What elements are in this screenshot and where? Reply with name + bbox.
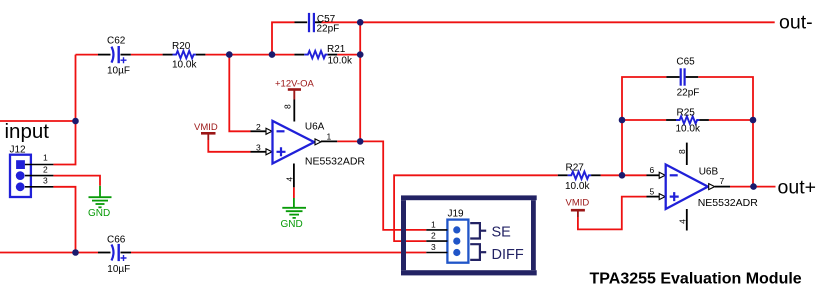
svg-text:3: 3 [43,175,48,185]
op-amp U6B [647,143,759,231]
svg-text:7: 7 [720,176,725,186]
svg-text:U6A: U6A [305,122,325,133]
ground (J12 pin2) [88,186,112,219]
node input junction [72,118,79,125]
svg-text:10.0k: 10.0k [172,60,197,71]
svg-text:C62: C62 [107,36,126,47]
SE jumper bracket [470,223,486,238]
wire feedback riser x=360 [359,22,361,141]
connector J12 [10,144,54,197]
resistor R25 [666,108,709,135]
capacitor C65 [666,57,699,99]
capacitor C66 [98,235,131,276]
pin 3 lead U6A [251,151,267,153]
pin 7 output U6B [709,184,715,190]
resistor R27 [558,163,601,193]
connector J19 [426,208,468,262]
node R20 / U6A pin2 junction [226,51,233,58]
svg-text:DIFF: DIFF [492,247,524,263]
wire C62 to R20 [131,54,163,56]
wire R27 left run to J19 pin2 [394,175,558,241]
node C57 right top junction [357,19,364,26]
wire U6B output to out+ [730,186,776,188]
svg-text:R25: R25 [677,108,696,119]
node R25 right junction [750,117,757,124]
svg-text:3: 3 [431,242,436,252]
svg-text:1: 1 [43,153,48,163]
wire VMID to U6B pin5 [578,197,647,230]
pin 1 pad J19 [453,226,460,233]
svg-text:TPA3255 Evaluation Module: TPA3255 Evaluation Module [590,271,802,288]
svg-text:R21: R21 [327,44,346,55]
node bottom run / J12 pin3 junction [72,249,79,256]
svg-text:out+: out+ [778,177,817,199]
pin 1 lead J19 [426,229,447,231]
pin 2 pad J12 [16,171,25,180]
wire out- feedback left riser x=272 [272,22,295,54]
wire U6A output to J19 pin1 [337,141,426,230]
node R27 / U6B pin6 junction [619,172,626,179]
svg-text:2: 2 [431,231,436,241]
resistor R21 [294,44,353,67]
pin 8 stub U6B [686,143,688,165]
svg-text:1: 1 [327,132,332,142]
svg-text:J19: J19 [448,208,465,219]
wire J12 pin3 down to bottom run [53,187,75,253]
wire J12 pin2 to GND [53,176,100,186]
node R21 right junction [357,51,364,58]
pin 2 lead J19 [426,240,447,242]
svg-text:10µF: 10µF [107,264,130,275]
svg-text:10.0k: 10.0k [676,124,701,135]
pin 2 lead U6A [251,130,267,132]
DIFF jumper bracket [470,244,486,260]
node U6A output junction [357,138,364,145]
pin 1 square pad J12 [16,160,25,169]
pin 6 lead U6B [647,174,660,176]
svg-text:C66: C66 [107,235,126,246]
svg-text:R27: R27 [566,163,585,174]
svg-text:5: 5 [650,186,655,196]
wire U6A pin4 to GND [293,187,295,198]
svg-text:VMID: VMID [566,198,590,209]
capacitor C57 [295,13,340,35]
node C57 loop left junction [269,51,276,58]
op-amp U6A [251,100,366,188]
pin 5 lead U6B [647,196,660,198]
selector outline box around J19 [401,195,537,275]
pin 3 lead J12 [25,186,54,188]
svg-text:8: 8 [677,149,687,154]
resistor R20 [163,41,206,71]
svg-text:6: 6 [650,165,655,175]
pin 2 pad J19 [453,238,460,245]
supply VMID (U6B) [566,198,590,218]
svg-text:22pF: 22pF [317,24,340,35]
svg-text:R20: R20 [172,41,191,52]
svg-text:+12V-OA: +12V-OA [275,79,314,90]
svg-text:10.0k: 10.0k [328,56,353,67]
svg-text:input: input [5,120,50,143]
wire node to C62 left [76,54,99,56]
svg-text:2: 2 [43,164,48,174]
wire input net from left edge [0,120,76,122]
wire R25 right segment [709,119,753,121]
wire bottom run left of C66 [0,252,98,254]
pin 2 lead J12 [25,175,54,177]
wire R25 left segment [622,119,666,121]
pin 4 stub U6A [293,164,295,188]
supply +12V-OA [275,79,314,100]
svg-text:SE: SE [492,225,512,241]
pin 8 stub U6A [293,100,295,122]
wire R20 to R21 [205,54,294,56]
svg-text:C65: C65 [676,57,695,68]
svg-text:8: 8 [283,104,293,109]
pin 4 stub U6B [686,209,688,231]
wire U6B feedback left riser to C65 [622,77,666,175]
svg-text:10.0k: 10.0k [565,181,590,192]
wire C65 right and feedback right riser [698,77,753,187]
pin 1 output U6A [315,139,321,145]
svg-text:2: 2 [256,122,261,132]
svg-text:NE5532ADR: NE5532ADR [698,197,759,209]
svg-text:3: 3 [256,142,261,152]
svg-text:out-: out- [779,12,813,34]
pin 3 pad J12 [16,182,25,191]
node R25 left junction [619,117,626,124]
svg-text:22pF: 22pF [677,87,700,98]
wire VMID to U6A pin3 [208,140,250,152]
wire node down to U6A pin2 [229,55,250,132]
svg-text:VMID: VMID [194,122,218,133]
wire R27 right to U6B pin6 [601,174,647,176]
svg-text:GND: GND [88,208,110,219]
svg-text:U6B: U6B [699,167,719,178]
capacitor C62 [98,36,131,77]
pin 3 pad J19 [453,249,460,256]
svg-text:4: 4 [678,219,688,224]
triangle body U6A [273,121,315,164]
wire bottom run C66 to J19 pin3 [131,252,426,254]
wire R21 right to riser [337,54,360,56]
wire input node down to J12 pin1 [53,55,75,165]
svg-text:NE5532ADR: NE5532ADR [305,156,366,168]
svg-text:GND: GND [281,219,303,230]
svg-text:1: 1 [431,219,436,229]
svg-text:4: 4 [285,177,295,182]
ground (U6A pin4) [281,198,307,230]
triangle body U6B [666,165,708,210]
svg-text:10µF: 10µF [107,66,130,77]
pin 1 lead J12 [25,164,54,166]
wire out- top run C57 to label [322,21,775,23]
pin 3 lead J19 [426,252,447,254]
node out+ junction [750,183,757,190]
supply VMID (U6A) [194,122,218,140]
